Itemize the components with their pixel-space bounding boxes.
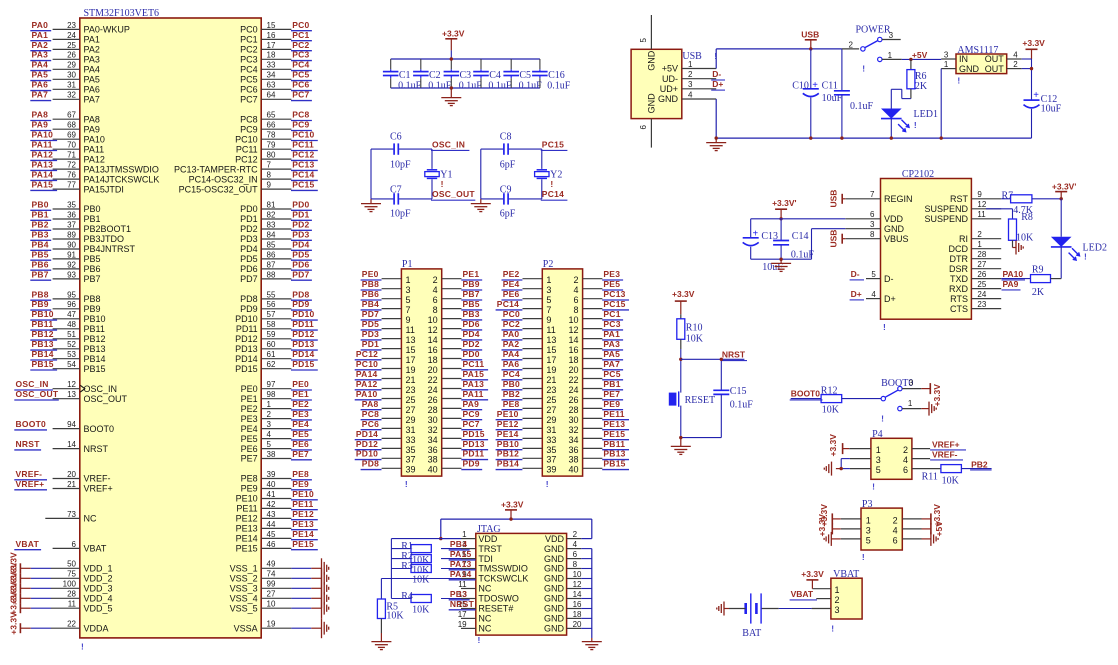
- svg-text:66: 66: [267, 121, 276, 130]
- wire LED1 to ground rail: [890, 119, 893, 140]
- svg-text:D+: D+: [712, 79, 723, 89]
- wire +5V from switch to AMS1117: [902, 58, 942, 61]
- header P3 pin 1: [866, 515, 871, 525]
- header P2 pin 1 (net PE2): [502, 269, 552, 285]
- svg-text:PA6: PA6: [84, 85, 100, 95]
- svg-text:PB0: PB0: [503, 379, 520, 389]
- svg-text:PA1: PA1: [603, 329, 620, 339]
- svg-text:PA13JTMSSWDIO: PA13JTMSSWDIO: [84, 164, 159, 174]
- svg-text:48: 48: [67, 320, 76, 329]
- svg-text:73: 73: [67, 510, 76, 519]
- svg-text:92: 92: [67, 260, 76, 269]
- svg-text:DSR: DSR: [949, 264, 969, 274]
- svg-text:42: 42: [267, 500, 276, 509]
- svg-text:PB12: PB12: [32, 329, 54, 339]
- JTAG pin 13 TDOSWO: [441, 589, 519, 604]
- header P1 pin 21 (net PA14): [355, 369, 416, 385]
- MCU pin 13 OSC_OUT (net OSC_OUT): [14, 389, 127, 404]
- header P1 pin 24 (net PA13): [428, 379, 489, 395]
- resistor R5 10K: [377, 599, 404, 622]
- svg-text:PA9: PA9: [1003, 279, 1019, 289]
- svg-text:TDOSWO: TDOSWO: [478, 594, 519, 604]
- svg-text:PE7: PE7: [292, 449, 309, 459]
- svg-text:29: 29: [546, 415, 556, 425]
- power port USB on +5V rail: [801, 30, 819, 51]
- svg-text:PC3: PC3: [603, 319, 620, 329]
- svg-text:5: 5: [866, 535, 871, 545]
- svg-text:P4: P4: [872, 429, 883, 440]
- svg-text:10K: 10K: [386, 611, 404, 622]
- crystal Y1: [425, 170, 453, 189]
- svg-text:2: 2: [1013, 60, 1018, 69]
- svg-text:PB10: PB10: [497, 439, 519, 449]
- USB pin 2 UD-: [662, 70, 716, 84]
- svg-text:PE11: PE11: [603, 409, 624, 419]
- svg-text:USB: USB: [801, 30, 819, 40]
- svg-text:PE8: PE8: [503, 399, 520, 409]
- svg-text:PE4: PE4: [292, 419, 309, 429]
- switch BOOT0 designator marker: [881, 414, 884, 424]
- svg-text:PE13: PE13: [292, 519, 314, 529]
- header P2 pin 34 (net PE15): [568, 429, 629, 445]
- svg-text:PD0: PD0: [463, 349, 480, 359]
- svg-text:PC6: PC6: [292, 80, 309, 90]
- svg-text:2: 2: [903, 445, 908, 455]
- wire crystal loop right (Y2): [541, 149, 543, 199]
- CP2102 pin 6 VDD: [845, 210, 903, 224]
- svg-text:P2: P2: [543, 259, 554, 270]
- svg-text:64: 64: [267, 91, 276, 100]
- header P2 pin 27 (net PE8): [502, 399, 557, 415]
- wire CP2102 VDD net: [751, 219, 846, 238]
- svg-text:!: !: [1084, 252, 1087, 262]
- wire reset bottom node: [679, 436, 721, 439]
- svg-text:PA14: PA14: [450, 569, 472, 579]
- capacitor C10 10uF polarized: [792, 49, 842, 140]
- MCU pin 49 VSS_1 with ground: [230, 558, 329, 578]
- svg-text:PA0: PA0: [503, 329, 520, 339]
- svg-text:+3.3V: +3.3V: [817, 514, 827, 537]
- header P1 pin 8 (net PB5): [433, 299, 483, 315]
- svg-text:PE13: PE13: [603, 419, 625, 429]
- svg-text:1: 1: [977, 240, 982, 249]
- svg-text:10: 10: [568, 315, 578, 325]
- svg-text:25: 25: [977, 280, 986, 289]
- svg-text:PC2: PC2: [292, 40, 309, 50]
- svg-text:54: 54: [67, 360, 76, 369]
- svg-text:24: 24: [568, 385, 578, 395]
- svg-text:0.1uF: 0.1uF: [398, 80, 422, 91]
- MCU pin 7 PC13-TAMPER-RTC (net PC13): [174, 160, 318, 175]
- svg-text:13: 13: [406, 335, 416, 345]
- svg-text:40: 40: [267, 480, 276, 489]
- MCU pin 83 PD2 (net PD2): [240, 219, 312, 234]
- svg-text:PC8: PC8: [292, 110, 309, 120]
- MCU pin 55 PD8 (net PD8): [240, 289, 312, 304]
- svg-text:34: 34: [428, 435, 438, 445]
- svg-text:27: 27: [267, 590, 276, 599]
- svg-text:PB9: PB9: [32, 299, 49, 309]
- svg-text:D-: D-: [884, 274, 894, 284]
- svg-text:15: 15: [267, 21, 276, 30]
- svg-text:38: 38: [428, 455, 438, 465]
- capacitor C16 0.1uF: [532, 59, 571, 91]
- svg-text:4: 4: [903, 455, 908, 465]
- svg-text:PC13: PC13: [292, 160, 314, 170]
- svg-text:R7: R7: [1002, 190, 1014, 201]
- header P1 pin 15 (net PD1): [361, 339, 416, 355]
- svg-text:PB9: PB9: [463, 279, 480, 289]
- svg-text:PE9: PE9: [241, 484, 258, 494]
- MCU pin 93 PB7 (net PB7): [30, 269, 100, 284]
- MCU pin 60 PD13 (net PD13): [235, 339, 318, 354]
- svg-text:4: 4: [573, 285, 578, 295]
- MCU pin 34 PC5 (net PC5): [240, 70, 312, 85]
- MCU designator marker: [81, 642, 84, 652]
- svg-text:PD1: PD1: [292, 209, 309, 219]
- header P2 pin 12 (net PC3): [568, 319, 623, 335]
- svg-text:+5V: +5V: [934, 521, 944, 537]
- svg-text:PB10: PB10: [84, 314, 106, 324]
- svg-text:+3.3V': +3.3V': [772, 198, 796, 208]
- MCU pin 77 PA15JTDI (net PA15): [30, 180, 124, 195]
- svg-text:25: 25: [406, 395, 416, 405]
- svg-text:14: 14: [573, 590, 582, 599]
- header P2 pin 8 (net PC15): [573, 299, 629, 315]
- svg-text:86: 86: [267, 250, 276, 259]
- svg-text:PD11: PD11: [292, 319, 314, 329]
- svg-text:PD3: PD3: [362, 329, 379, 339]
- svg-text:16: 16: [267, 31, 276, 40]
- AMS1117 pin 2 OUT: [985, 60, 1022, 74]
- wire TCK to R5: [380, 579, 382, 600]
- svg-text:18: 18: [428, 355, 438, 365]
- wire JTAG VDD top rail: [441, 517, 592, 520]
- svg-text:3: 3: [909, 378, 914, 387]
- svg-text:NRST: NRST: [16, 439, 41, 449]
- wire RESET button to ground node: [680, 406, 682, 438]
- svg-text:PD9: PD9: [240, 304, 258, 314]
- svg-text:VREF+: VREF+: [84, 484, 113, 494]
- svg-text:5: 5: [871, 270, 876, 279]
- net label PA9 at RXD: [1002, 279, 1021, 290]
- svg-text:21: 21: [67, 480, 76, 489]
- svg-text:3: 3: [546, 285, 551, 295]
- svg-text:PC13-TAMPER-RTC: PC13-TAMPER-RTC: [174, 164, 258, 174]
- svg-text:10K: 10K: [412, 605, 430, 616]
- svg-text:PE6: PE6: [292, 439, 309, 449]
- svg-text:C15: C15: [730, 386, 747, 397]
- svg-text:PB4JNTRST: PB4JNTRST: [84, 244, 136, 254]
- svg-text:PB6: PB6: [84, 264, 101, 274]
- svg-text:49: 49: [267, 560, 276, 569]
- header VBAT title: [833, 569, 859, 580]
- svg-text:17: 17: [546, 355, 556, 365]
- MCU pin 63 PC6 (net PC6): [240, 80, 312, 95]
- svg-text:C2: C2: [429, 70, 441, 81]
- header P4 pin 3: [876, 455, 881, 465]
- svg-text:6pF: 6pF: [500, 208, 516, 219]
- svg-text:PD13: PD13: [463, 439, 485, 449]
- P3 pin2 wire to +3.3V port: [902, 504, 942, 527]
- svg-text:VSS_4: VSS_4: [230, 594, 258, 604]
- capacitor C13 10uF polarized: [743, 229, 784, 273]
- svg-text:VSS_3: VSS_3: [230, 584, 258, 594]
- svg-text:PD13: PD13: [235, 344, 258, 354]
- svg-text:32: 32: [568, 425, 578, 435]
- USB designator marker: [714, 51, 717, 61]
- svg-text:P1: P1: [402, 259, 413, 270]
- svg-text:C6: C6: [390, 132, 402, 143]
- wire R10 to reset node: [679, 339, 682, 392]
- VBAT pin3 wire to battery: [761, 608, 831, 610]
- MCU pin 29 PA4 (net PA4): [30, 60, 100, 75]
- header P1 pin 4 (net PB9): [433, 279, 483, 295]
- svg-text:TXD: TXD: [950, 274, 969, 284]
- header P2 pin 3 (net PE4): [502, 279, 552, 295]
- header P1 pin 3 (net PB8): [361, 279, 411, 295]
- svg-text:88: 88: [267, 270, 276, 279]
- svg-text:OSC_IN: OSC_IN: [84, 384, 118, 394]
- MCU pin 92 PB6 (net PB6): [30, 259, 100, 274]
- MCU pin 76 PA14JTCKSWCLK (net PA14): [30, 170, 159, 185]
- svg-text:14: 14: [428, 335, 438, 345]
- svg-text:PD15: PD15: [235, 364, 258, 374]
- svg-text:36: 36: [428, 445, 438, 455]
- svg-text:PE0: PE0: [241, 384, 258, 394]
- svg-text:PC7: PC7: [240, 95, 258, 105]
- svg-text:0.1uF: 0.1uF: [459, 80, 483, 91]
- wire AMS1117 OUT to C12: [1022, 59, 1034, 100]
- header P4 pin 2: [903, 445, 908, 455]
- svg-text:6: 6: [903, 465, 908, 475]
- svg-text:+3.3V: +3.3V: [442, 29, 465, 39]
- MCU pin 17 PC2 (net PC2): [240, 40, 312, 55]
- svg-text:98: 98: [267, 390, 276, 399]
- svg-text:PB3: PB3: [450, 589, 467, 599]
- USB pin 3 UD+: [660, 80, 716, 94]
- svg-text:PB11: PB11: [603, 439, 625, 449]
- JTAG pin 19 NC: [458, 620, 492, 634]
- svg-text:59: 59: [267, 330, 276, 339]
- svg-text:PA3: PA3: [32, 50, 49, 60]
- svg-text:VSS_1: VSS_1: [230, 564, 258, 574]
- net label PC14: [541, 189, 568, 200]
- svg-text:36: 36: [568, 445, 578, 455]
- svg-text:PC9: PC9: [240, 124, 258, 134]
- svg-text:1: 1: [908, 399, 913, 408]
- svg-text:PE11: PE11: [236, 504, 257, 514]
- svg-text:95: 95: [67, 290, 76, 299]
- CP2102 pin 26 TXD: [950, 270, 1001, 284]
- MCU pin 100 VDD_3 with +3.3V power port: [9, 572, 113, 595]
- ground at bottom rail: [706, 138, 726, 151]
- header P3 body: [861, 508, 902, 550]
- P3 pin6 wire to ground: [902, 532, 938, 546]
- svg-text:PC5: PC5: [292, 70, 309, 80]
- resistor R2 10K: [401, 551, 431, 576]
- svg-text:UD-: UD-: [662, 74, 678, 84]
- switch BOOT0 title: [881, 378, 913, 389]
- header P1 pin 23 (net PA12): [355, 379, 416, 395]
- svg-text:PD8: PD8: [362, 459, 379, 469]
- svg-text:43: 43: [267, 510, 276, 519]
- header P2 pin 14 (net PA1): [568, 329, 623, 345]
- svg-text:PC6: PC6: [240, 85, 258, 95]
- svg-text:9: 9: [977, 190, 982, 199]
- svg-text:19: 19: [546, 365, 556, 375]
- net label NRST at reset node: [721, 350, 747, 361]
- svg-text:PD1: PD1: [362, 339, 379, 349]
- svg-text:PA8: PA8: [84, 114, 100, 124]
- JTAG pin 1 VDD: [441, 530, 498, 544]
- svg-text:PB13: PB13: [32, 339, 54, 349]
- header P2 pin 5 (net PE6): [502, 289, 552, 305]
- svg-text:4: 4: [871, 290, 876, 299]
- svg-text:PD6: PD6: [240, 264, 258, 274]
- svg-text:PB4: PB4: [450, 539, 467, 549]
- wire BOOT0 to R12: [791, 398, 821, 400]
- switch BOOT0 lever: [885, 390, 898, 397]
- svg-text:PE12: PE12: [497, 419, 519, 429]
- MCU pin 84 PD3 (net PD3): [240, 229, 312, 244]
- svg-text:+: +: [1033, 90, 1039, 101]
- resistor R6 2K: [907, 59, 928, 92]
- svg-text:PE9: PE9: [603, 399, 620, 409]
- svg-text:8: 8: [870, 230, 875, 239]
- svg-text:PA3: PA3: [603, 339, 620, 349]
- svg-text:PC5: PC5: [240, 75, 258, 85]
- svg-text:PB1: PB1: [84, 214, 101, 224]
- header P1 pin 27 (net PA8): [361, 399, 416, 415]
- svg-text:PB0: PB0: [84, 204, 101, 214]
- header P2 pin 24 (net PB1): [568, 379, 623, 395]
- MCU pin 59 PD12 (net PD12): [235, 329, 318, 344]
- svg-text:31: 31: [406, 425, 416, 435]
- net label +5V: [912, 50, 928, 60]
- net label D- at USB: [711, 69, 725, 80]
- svg-text:8: 8: [573, 305, 578, 315]
- svg-text:PE0: PE0: [292, 379, 309, 389]
- svg-text:PB3: PB3: [32, 229, 49, 239]
- svg-text:OUT: OUT: [985, 64, 1005, 74]
- svg-text:71: 71: [67, 151, 76, 160]
- svg-text:63: 63: [267, 81, 276, 90]
- svg-text:PB8: PB8: [32, 289, 49, 299]
- svg-text:PD8: PD8: [292, 289, 309, 299]
- JTAG pin 17 NC: [458, 610, 492, 624]
- header P1 pin 26 (net PA11): [428, 389, 489, 405]
- header VBAT body: [831, 578, 862, 619]
- switch POWER lever: [865, 41, 878, 48]
- svg-text:PB15: PB15: [603, 459, 625, 469]
- MCU pin 89 PB3JTDO (net PB3): [30, 229, 124, 244]
- P4 pin2 net label VREF+: [912, 439, 966, 450]
- svg-text:PD11: PD11: [463, 449, 485, 459]
- MCU pin 78 PC10 (net PC10): [235, 130, 318, 145]
- svg-text:PC12: PC12: [292, 150, 314, 160]
- svg-text:D-: D-: [851, 269, 860, 279]
- svg-text:PA10: PA10: [84, 134, 105, 144]
- MCU pin 45 PE14 (net PE14): [236, 529, 318, 544]
- svg-text:PD6: PD6: [463, 319, 480, 329]
- CP2102 pin 7 REGIN with USB power port: [829, 190, 913, 208]
- svg-text:3: 3: [870, 220, 875, 229]
- svg-text:2K: 2K: [1032, 287, 1045, 298]
- svg-text:24: 24: [67, 31, 76, 40]
- svg-text:PC12: PC12: [235, 154, 258, 164]
- svg-text:84: 84: [267, 230, 276, 239]
- header P2 pin 25 (net PB2): [502, 389, 557, 405]
- svg-text:C4: C4: [489, 70, 501, 81]
- svg-text:PA9: PA9: [84, 124, 100, 134]
- svg-text:PA7: PA7: [603, 359, 620, 369]
- svg-text:4: 4: [688, 90, 693, 99]
- wire AMS1117 GND down to rail: [940, 69, 943, 140]
- svg-text:VSSA: VSSA: [234, 623, 258, 633]
- svg-text:PD12: PD12: [235, 334, 258, 344]
- MCU pin 37 PB2BOOT1 (net PB2): [30, 219, 131, 234]
- svg-text:PE12: PE12: [292, 509, 314, 519]
- svg-text:LED1: LED1: [914, 109, 938, 120]
- svg-text:PD0: PD0: [292, 199, 309, 209]
- svg-text:10K: 10K: [942, 476, 960, 487]
- svg-text:PE10: PE10: [292, 489, 314, 499]
- JTAG pin 20 GND: [544, 620, 592, 634]
- JTAG pin 11 NC: [458, 580, 492, 594]
- svg-text:PE3: PE3: [603, 269, 620, 279]
- svg-text:VDD_3: VDD_3: [84, 584, 113, 594]
- svg-text:5: 5: [406, 295, 411, 305]
- MCU pin 40 PE9 (net PE9): [241, 479, 312, 494]
- svg-text:GND: GND: [544, 584, 565, 594]
- power port +3.3V-prime at R7: [1052, 181, 1076, 199]
- svg-text:!: !: [478, 635, 481, 645]
- MCU pin 53 PB14 (net PB14): [30, 349, 105, 364]
- svg-text:PC14: PC14: [292, 170, 314, 180]
- svg-text:0.1uF: 0.1uF: [519, 80, 543, 91]
- MCU pin 90 PB4JNTRST (net PB4): [30, 239, 135, 254]
- svg-text:PD14: PD14: [292, 349, 314, 359]
- header P1 pin 12 (net PD6): [428, 319, 483, 335]
- switch POWER title: [856, 25, 891, 36]
- svg-text:PB15: PB15: [84, 364, 106, 374]
- svg-text:OSC_OUT: OSC_OUT: [432, 189, 475, 199]
- svg-text:PA3: PA3: [84, 55, 100, 65]
- svg-text:PB5: PB5: [463, 299, 480, 309]
- svg-text:PA0: PA0: [32, 20, 49, 30]
- svg-text:PC10: PC10: [292, 130, 314, 140]
- svg-text:PA10: PA10: [356, 389, 378, 399]
- svg-text:8: 8: [433, 305, 438, 315]
- svg-text:6: 6: [72, 540, 77, 549]
- svg-text:C3: C3: [460, 70, 472, 81]
- pushbutton RESET: [669, 391, 715, 406]
- MCU pin 31 PA6 (net PA6): [30, 80, 100, 95]
- svg-text:99: 99: [267, 580, 276, 589]
- MCU pin 97 PE0 (net PE0): [241, 379, 312, 394]
- svg-text:PC0: PC0: [503, 309, 520, 319]
- svg-text:4: 4: [267, 430, 272, 439]
- wire reset node to C15: [681, 358, 745, 391]
- svg-text:PB5: PB5: [32, 249, 49, 259]
- header P3 pin 6: [893, 535, 898, 545]
- header P2 pin 28 (net PE9): [568, 399, 623, 415]
- svg-text:14: 14: [67, 440, 76, 449]
- JTAG pin 3 TRST: [441, 539, 502, 554]
- svg-text:C1: C1: [399, 70, 411, 81]
- power port +3.3V at AMS1117 output: [1022, 38, 1045, 59]
